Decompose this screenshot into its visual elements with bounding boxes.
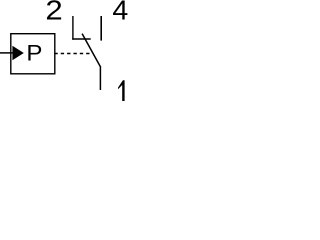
svg-text:P: P (26, 40, 42, 65)
pin label 1 (drawn, no foot serif) (118, 80, 125, 101)
svg-text:4: 4 (112, 0, 128, 25)
pressure sensor box P (11, 34, 55, 74)
terminal 2 wire (NC) (72, 16, 74, 40)
NC contact seat bar (72, 38, 91, 40)
terminal 1 wire (common, bottom) (99, 66, 101, 90)
mechanical link (dashed wire) (54, 53, 91, 55)
arrowhead into box (12, 46, 23, 61)
svg-text:2: 2 (45, 0, 62, 26)
switch lever (moving contact) (82, 34, 100, 67)
wire arrow tail (0, 52, 13, 54)
terminal 4 wire (NO) (100, 16, 102, 41)
